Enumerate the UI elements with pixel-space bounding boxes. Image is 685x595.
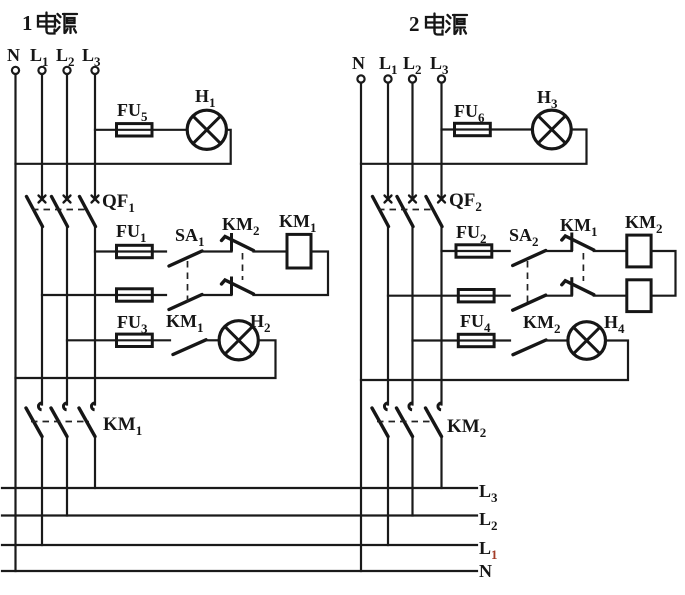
svg-text:SA2: SA2: [509, 225, 539, 249]
wire L1 right vertical lower: [387, 437, 389, 546]
svg-text:L3: L3: [430, 53, 449, 77]
bus L1: [2, 544, 477, 546]
svg-text:N: N: [479, 561, 492, 581]
circuit breaker QF2 pole 1: [373, 196, 392, 227]
svg-text:KM1: KM1: [166, 311, 204, 335]
wire coil KM2 series link: [651, 251, 675, 296]
svg-text:L3: L3: [82, 45, 101, 69]
wire KM1 NC to coil KM2: [594, 250, 627, 252]
KM2 main link dashed: [377, 421, 433, 423]
bus L3: [2, 487, 477, 489]
fuse FU3: [117, 334, 153, 346]
wire SA2 to KM1 contact: [546, 250, 572, 252]
contact KM2 NC pole 2: [222, 277, 254, 296]
wire row2 from L1 to SA2 pole2: [388, 295, 510, 297]
wire KM2 to coil KM1: [254, 250, 288, 252]
wire SA2 pole2 to KM1 NC pole2: [546, 295, 572, 297]
hand-drawn glyph 源: [56, 14, 77, 33]
svg-text:KM2: KM2: [447, 416, 486, 440]
svg-text:KM2: KM2: [222, 214, 260, 238]
coil KM1: [287, 234, 311, 268]
wire row3 from L2 to KM1 contact: [67, 339, 170, 341]
svg-text:L2: L2: [479, 509, 498, 533]
wire H3 to return: [361, 130, 587, 164]
circuit breaker QF1 pole 3: [80, 196, 99, 227]
wire L3 vertical middle: [94, 227, 96, 405]
wire row3 from L2 to KM2 contact: [413, 339, 511, 341]
wire row1 from L3 to SA1: [95, 250, 166, 252]
svg-text:SA1: SA1: [175, 225, 205, 249]
hand-drawn glyph 电: [426, 14, 443, 35]
terminal L2 right: [409, 75, 416, 82]
contact KM2 NC pole 1: [222, 233, 254, 252]
wire L2 vertical middle: [66, 227, 68, 405]
wire L2 right vertical lower: [411, 437, 413, 516]
contactor KM1 main pole 1: [26, 403, 42, 437]
SA2 link dashed: [527, 261, 529, 307]
svg-text:N: N: [7, 45, 20, 65]
circuit breaker QF1 pole 1: [27, 196, 46, 227]
svg-text:QF2: QF2: [449, 190, 482, 214]
SA1 link dashed: [187, 261, 189, 306]
wire SA1 pole2 to KM2 pole2: [202, 294, 232, 296]
contactor KM2 main pole 2: [397, 403, 413, 437]
svg-text:FU3: FU3: [117, 312, 148, 336]
svg-text:L2: L2: [403, 53, 422, 77]
svg-text:QF1: QF1: [102, 191, 135, 215]
KM1 NC link dashed: [582, 253, 584, 281]
wire N vertical right: [360, 83, 362, 571]
lamp H4: [568, 322, 606, 360]
wire row2 from L1 to SA1 pole2: [42, 294, 166, 296]
contact KM1 NO auxiliary: [173, 340, 206, 355]
svg-text:L1: L1: [30, 45, 49, 69]
contactor KM2 main pole 1: [372, 403, 388, 437]
wire lamp H1 branch: [95, 129, 187, 131]
wire H4 to N return: [361, 341, 628, 381]
wire L2 right vertical upper: [411, 83, 413, 199]
wire row1 from L3 to SA2: [442, 250, 510, 252]
coil KM2 upper: [627, 235, 651, 267]
wire KM1 contact to lamp H2: [206, 339, 219, 341]
wire L1 right vertical upper: [387, 83, 389, 199]
switch SA2 pole 2: [513, 295, 546, 310]
wire L3 vertical upper: [94, 74, 96, 198]
svg-text:KM2: KM2: [625, 212, 663, 236]
svg-text:H1: H1: [195, 86, 216, 110]
terminal N: [12, 67, 19, 74]
hand-drawn glyph 电: [38, 13, 55, 34]
contact KM2 NO auxiliary: [513, 340, 546, 355]
svg-text:L3: L3: [479, 481, 498, 505]
svg-text:L2: L2: [56, 45, 75, 69]
lamp H3: [532, 110, 571, 149]
fuse row2 left: [117, 289, 153, 301]
svg-text:L1: L1: [479, 538, 498, 562]
terminal L3 right: [438, 75, 445, 82]
svg-text:FU5: FU5: [117, 100, 148, 124]
fuse FU6: [455, 123, 491, 135]
wire L1 right vertical middle: [387, 227, 389, 405]
lamp H1: [187, 110, 226, 149]
QF1 mechanical link dashed: [32, 209, 89, 211]
fuse FU5: [117, 124, 153, 136]
title 1 power source: [22, 11, 77, 35]
fuse FU4: [458, 290, 494, 302]
svg-text:FU2: FU2: [456, 222, 487, 246]
switch SA1 pole 1: [169, 251, 202, 266]
wire L1 vertical middle: [41, 227, 43, 405]
KM2 NC link dashed: [242, 253, 244, 280]
wire L2 right vertical middle: [411, 227, 413, 405]
svg-text:H4: H4: [604, 312, 625, 336]
wire KM2 contact to lamp H4: [546, 339, 568, 341]
svg-text:FU4: FU4: [460, 311, 491, 335]
contactor KM1 main pole 3: [79, 403, 95, 437]
circuit breaker QF2 pole 3: [426, 196, 445, 227]
QF2 mechanical link dashed: [378, 209, 433, 211]
svg-text:H2: H2: [250, 311, 271, 335]
wire L1 vertical lower: [41, 437, 43, 546]
wire coil KM1 return: [254, 252, 329, 296]
wire L2 vertical upper: [66, 74, 68, 198]
wire L3 right vertical lower: [440, 437, 442, 489]
contactor KM1 main pole 2: [51, 403, 67, 437]
terminal L3: [91, 67, 98, 74]
wire lamp H3 branch: [442, 128, 533, 130]
circuit breaker QF2 pole 2: [397, 196, 416, 227]
switch SA1 pole 2: [169, 295, 202, 310]
svg-text:N: N: [352, 53, 365, 73]
circuit breaker QF1 pole 2: [52, 196, 71, 227]
svg-text:1: 1: [22, 11, 33, 35]
terminal L1: [38, 67, 45, 74]
svg-text:2: 2: [409, 12, 420, 36]
wire N vertical left: [14, 74, 16, 571]
wire L3 vertical lower: [94, 437, 96, 489]
fuse FU1: [117, 245, 153, 257]
svg-text:H3: H3: [537, 87, 558, 111]
wire H2 to N return: [16, 340, 276, 378]
svg-text:KM1: KM1: [279, 211, 317, 235]
wire L2 vertical lower: [66, 437, 68, 516]
svg-text:KM2: KM2: [523, 312, 561, 336]
bus L2: [2, 514, 477, 516]
hand-drawn glyph 源: [446, 15, 467, 34]
fuse FU2: [456, 245, 492, 257]
fuse row3 right: [458, 334, 494, 346]
svg-text:FU1: FU1: [116, 221, 147, 245]
wire L3 right vertical middle: [440, 227, 442, 405]
terminal N right: [357, 75, 364, 82]
bus N: [2, 570, 477, 572]
switch SA2 pole 1: [513, 251, 546, 266]
wire H1 to return: [16, 130, 231, 164]
wire L3 right vertical upper: [440, 83, 442, 199]
terminal L1 right: [384, 75, 391, 82]
terminal L2: [63, 67, 70, 74]
lamp H2: [219, 321, 258, 360]
contact KM1 NC pole 2: [562, 277, 594, 296]
svg-text:FU6: FU6: [454, 101, 485, 125]
contact KM1 NC pole 1: [562, 233, 594, 252]
KM1 main link dashed: [31, 421, 89, 423]
svg-text:KM1: KM1: [103, 414, 142, 438]
svg-text:L1: L1: [379, 53, 398, 77]
wire L1 vertical upper: [41, 74, 43, 198]
wire SA1 to KM2 contact: [202, 250, 232, 252]
wire row2 coil to KM1 NC pole2: [594, 295, 627, 297]
contactor KM2 main pole 3: [426, 403, 442, 437]
title 2 power source: [409, 12, 467, 36]
coil KM2 lower: [627, 280, 651, 312]
